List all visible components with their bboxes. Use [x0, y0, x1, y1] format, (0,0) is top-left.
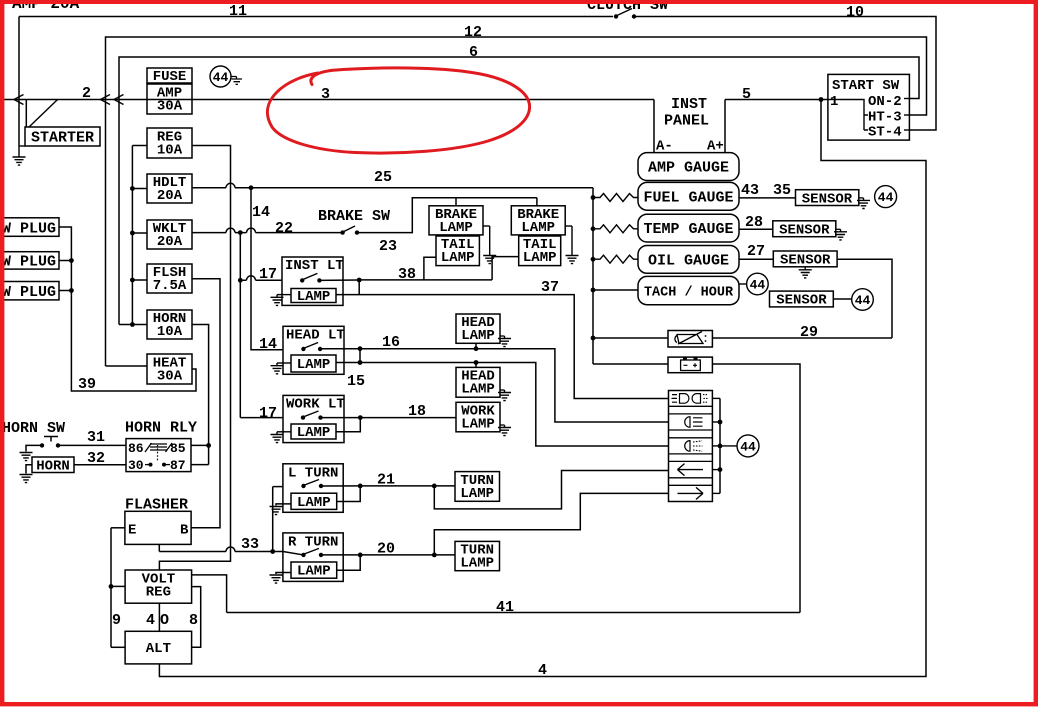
- lamp HEAD LAMP 2: [456, 367, 500, 397]
- WORK LT output node: [321, 417, 361, 419]
- wire stub to starter: [25, 100, 27, 128]
- svg-text:L TURN: L TURN: [288, 466, 338, 482]
- lamp HEAD LAMP 1: [456, 314, 500, 343]
- starter ground: [19, 145, 25, 147]
- lamp box inside HEAD LT: [291, 355, 336, 372]
- wire 28 temp sender: [739, 228, 773, 230]
- R TURN feed: [283, 552, 304, 555]
- left turn indicator path: [434, 471, 668, 509]
- svg-text:10A: 10A: [157, 143, 183, 159]
- wire 5: [725, 99, 828, 101]
- svg-text:HORN: HORN: [36, 459, 70, 475]
- INST LT ground: [277, 294, 291, 296]
- feed wire to HEAD LT (14): [251, 188, 283, 350]
- svg-text:LAMP: LAMP: [461, 417, 495, 433]
- tach sensor wire to 44: [833, 298, 851, 300]
- low beam icon: [685, 417, 703, 428]
- svg-text:LAMP: LAMP: [297, 357, 331, 373]
- switch R TURN: [283, 533, 343, 582]
- high beam icon: [672, 394, 689, 404]
- L TURN lamp tie: [337, 486, 361, 502]
- svg-text:22: 22: [275, 220, 293, 237]
- sensor OIL SENSOR: [773, 251, 837, 267]
- svg-text:R TURN: R TURN: [288, 535, 338, 551]
- svg-text:20A: 20A: [157, 188, 183, 204]
- ground at circle 44: [231, 76, 237, 78]
- svg-text:PANEL: PANEL: [664, 113, 709, 130]
- svg-text:LAMP: LAMP: [441, 250, 475, 266]
- junction node 1 of start switch: [819, 97, 824, 102]
- svg-text:WORK LT: WORK LT: [286, 397, 345, 413]
- svg-text:10A: 10A: [157, 324, 183, 340]
- gauge AMP GAUGE: [638, 153, 739, 181]
- svg-text:4: 4: [538, 662, 547, 679]
- ALT left pin: [111, 646, 125, 648]
- svg-text:16: 16: [382, 334, 400, 351]
- wire 43/35 fuel sender: [739, 197, 796, 199]
- relay coil symbol: [145, 443, 172, 452]
- resistor to TEMP gauge: [593, 225, 638, 233]
- lamp BRAKE LAMP 1: [429, 206, 483, 235]
- connector circle 44 fuel: [875, 186, 897, 208]
- wire to WORK LT (17): [240, 417, 283, 419]
- wire 22: [192, 228, 343, 232]
- gauge feed bus: [592, 188, 594, 364]
- svg-text:21: 21: [377, 472, 395, 489]
- svg-text:18: 18: [408, 403, 426, 420]
- vertical wire from 11 to starter ground: [18, 17, 20, 147]
- svg-text:LAMP: LAMP: [523, 250, 557, 266]
- svg-text:LAMP: LAMP: [461, 328, 495, 344]
- svg-text:SENSOR: SENSOR: [779, 222, 830, 238]
- INST LT output node: [319, 279, 359, 281]
- svg-text:30A: 30A: [157, 99, 183, 115]
- volt reg to ALT center pin: [158, 603, 160, 631]
- wire REG fuse to volt regulator: [159, 146, 230, 571]
- svg-text:2: 2: [82, 85, 91, 102]
- wire 12: [106, 37, 927, 366]
- svg-text:12: 12: [464, 24, 482, 41]
- glow plug 2: [0, 252, 59, 269]
- red hand-drawn oval annotation: [267, 68, 529, 153]
- R TURN output node: [321, 554, 360, 556]
- lamp box inside R TURN: [291, 562, 337, 578]
- wire 41: [227, 612, 800, 614]
- drop to brake lamp 2: [536, 198, 538, 206]
- fuse REG 10A: [147, 128, 192, 158]
- svg-text:87: 87: [170, 458, 186, 473]
- lamp TURN LAMP 1: [455, 472, 500, 502]
- head lamp 2 ground: [500, 389, 505, 391]
- lamp box inside WORK LT: [291, 424, 336, 439]
- switch L TURN: [283, 464, 343, 513]
- R TURN ground: [276, 573, 291, 575]
- sensor FUEL SENSOR: [796, 190, 859, 206]
- svg-text:START SW: START SW: [832, 78, 900, 94]
- regulator VOLT REG: [125, 570, 192, 603]
- svg-text:OIL GAUGE: OIL GAUGE: [648, 252, 729, 269]
- wire 2 / wire 3: [0, 99, 654, 101]
- wire 31: [58, 444, 126, 446]
- flasher E wire: [111, 527, 125, 529]
- riser to amp gauge A-: [653, 100, 655, 153]
- work light icon: [685, 441, 690, 452]
- svg-text:ALT: ALT: [146, 641, 171, 657]
- fuse AMP 30A: [147, 84, 192, 114]
- svg-text:INST: INST: [671, 96, 707, 113]
- svg-text:HORN RLY: HORN RLY: [125, 420, 197, 437]
- wire HORN fuse to horn relay: [192, 325, 209, 465]
- svg-text:44: 44: [878, 190, 894, 205]
- glow plug 1: [0, 218, 59, 237]
- wire 29: [837, 259, 892, 338]
- switch WORK LT: [283, 395, 344, 442]
- sensor TEMP SENSOR: [773, 221, 836, 237]
- fuse HDLT 20A: [147, 174, 192, 203]
- svg-text:3: 3: [321, 86, 330, 103]
- svg-text:85: 85: [170, 441, 186, 456]
- svg-text:38: 38: [398, 266, 416, 283]
- wire hop chevrons on wire 2: [14, 95, 24, 105]
- oil can icon: [675, 332, 703, 345]
- relay pin 85 wire: [191, 444, 209, 446]
- horn HORN: [32, 457, 74, 473]
- svg-text:LAMP: LAMP: [297, 425, 331, 441]
- fuse FLSH 7.5A: [147, 264, 192, 293]
- right arrow icon: [678, 487, 704, 499]
- L TURN feed: [273, 486, 283, 488]
- volt reg pin 8 to ALT: [192, 587, 201, 648]
- fuse label box: [147, 68, 192, 83]
- HEAD LT output node: [320, 348, 360, 350]
- svg-text:33: 33: [241, 536, 259, 553]
- WORK LT ground: [277, 431, 291, 433]
- svg-text:4: 4: [146, 612, 155, 629]
- svg-text:HORN SW: HORN SW: [2, 420, 65, 437]
- head lamp 1 pin: [475, 343, 477, 348]
- relay contact symbol: [157, 445, 159, 462]
- svg-text:LAMP: LAMP: [461, 382, 495, 398]
- L TURN ground: [276, 504, 291, 506]
- svg-text:14: 14: [259, 336, 277, 353]
- svg-text:LAMP: LAMP: [297, 495, 331, 511]
- wire 25: [192, 183, 593, 188]
- wire 12 feed to HEAT fuse: [106, 365, 148, 367]
- R TURN lamp tie: [337, 555, 361, 570]
- head lamp 1 ground: [500, 335, 505, 337]
- horn ground: [26, 465, 32, 474]
- svg-text:86: 86: [128, 441, 144, 456]
- svg-text:SENSOR: SENSOR: [776, 293, 827, 309]
- sensor TACH SENSOR: [770, 291, 834, 307]
- oil pressure tell-tale box: [668, 331, 712, 348]
- wire 41 riser to battery: [712, 364, 800, 613]
- svg-text:17: 17: [259, 405, 277, 422]
- wire 10: [634, 17, 936, 131]
- svg-text:INST LT: INST LT: [285, 258, 344, 274]
- svg-text:LAMP: LAMP: [521, 220, 555, 236]
- svg-text:41: 41: [496, 599, 514, 616]
- tie to lamp / wire 37 start: [358, 280, 360, 295]
- svg-text:5: 5: [742, 86, 751, 103]
- glow plug 3: [0, 282, 59, 300]
- switch INST LT: [282, 257, 343, 305]
- svg-text:BRAKE SW: BRAKE SW: [318, 208, 390, 225]
- svg-text:AMP GAUGE: AMP GAUGE: [648, 160, 729, 177]
- wire 32: [74, 464, 126, 466]
- work lamp ground: [500, 424, 505, 426]
- wire 21: [360, 485, 455, 487]
- indicator staple bus: [719, 398, 721, 493]
- wire 6 feed to HORN fuse: [119, 324, 147, 326]
- svg-text:FUSE: FUSE: [153, 69, 187, 85]
- wire from node 1 down and around to ALT (wire 4): [159, 100, 926, 677]
- volt reg pin to battery (wire 41 riser): [192, 575, 227, 613]
- svg-text:10: 10: [846, 4, 864, 21]
- fuse feed bus: [131, 146, 133, 325]
- svg-text:11: 11: [229, 3, 247, 20]
- battery tell-tale box: [668, 357, 712, 373]
- tach connector circle 44: [739, 283, 747, 285]
- lamp TAIL LAMP 2: [519, 236, 561, 266]
- wire 23: [357, 198, 537, 233]
- svg-text:32: 32: [87, 450, 105, 467]
- fuel sensor ground: [859, 197, 864, 199]
- svg-text:E: E: [128, 523, 136, 539]
- gauge OIL GAUGE: [638, 246, 739, 274]
- svg-text:25: 25: [374, 169, 392, 186]
- svg-text:LAMP: LAMP: [439, 220, 473, 236]
- resistor to FUEL gauge: [593, 194, 638, 202]
- connector circle 44 (top): [210, 66, 231, 87]
- svg-text:9: 9: [112, 612, 121, 629]
- wire 27 oil sender: [739, 258, 773, 260]
- svg-text:SENSOR: SENSOR: [780, 253, 831, 269]
- connector circle 44 indicators: [737, 435, 759, 457]
- svg-text:44: 44: [213, 70, 229, 85]
- head lamp 2 pin: [475, 363, 477, 368]
- svg-text:14: 14: [252, 204, 270, 221]
- svg-text:LAMP: LAMP: [460, 486, 494, 502]
- switch HEAD LT: [283, 326, 344, 374]
- glow plug bus: [59, 227, 196, 391]
- svg-text:29: 29: [800, 324, 818, 341]
- svg-text:LAMP: LAMP: [297, 564, 331, 580]
- svg-text:6: 6: [469, 44, 478, 61]
- svg-text:37: 37: [541, 279, 559, 296]
- svg-text:ON-2: ON-2: [868, 94, 902, 110]
- svg-text:28: 28: [745, 214, 763, 231]
- svg-text:8: 8: [189, 612, 198, 629]
- fuse HEAT 30A: [147, 354, 192, 384]
- svg-text:SENSOR: SENSOR: [802, 191, 853, 207]
- relay pin 87 wire: [191, 464, 209, 466]
- wire 15: [336, 363, 669, 447]
- horn switch ground: [26, 445, 42, 451]
- svg-text:44: 44: [855, 293, 871, 308]
- clutch switch contacts: [614, 14, 618, 18]
- riser to amp gauge A+: [724, 100, 726, 153]
- wire 16: [360, 349, 669, 422]
- temp sensor ground: [836, 228, 841, 230]
- wire 38: [359, 279, 492, 281]
- volt reg left pin wire: [111, 585, 125, 587]
- svg-text:W PLUG: W PLUG: [2, 284, 56, 301]
- svg-text:15: 15: [347, 373, 365, 390]
- svg-text:STARTER: STARTER: [31, 130, 94, 147]
- right turn indicator path: [434, 493, 668, 555]
- tie switch to lamp: [359, 349, 361, 363]
- start switch bracket: [840, 100, 868, 131]
- drop to brake lamp 1: [455, 198, 457, 206]
- resistor to OIL gauge: [593, 255, 638, 263]
- wire 6: [119, 57, 919, 325]
- lamp box inside L TURN: [291, 493, 337, 509]
- brake lamp 1 ground: [483, 225, 490, 227]
- feed wire to INST LT and WORK LT: [239, 233, 241, 418]
- svg-text:LAMP: LAMP: [460, 556, 494, 572]
- svg-text:20A: 20A: [157, 234, 183, 250]
- oil sensor ground: [799, 267, 812, 278]
- indicator lamp cluster box: [669, 391, 713, 502]
- gauge TEMP GAUGE: [638, 214, 739, 242]
- gauge TACH / HOUR: [638, 276, 739, 304]
- hop of INST feed over head-lt drop: [240, 276, 282, 281]
- svg-text:REG: REG: [146, 585, 171, 601]
- tie switch to lamp: [336, 418, 360, 432]
- wire 33: [158, 544, 160, 551]
- svg-text:ST-4: ST-4: [868, 125, 902, 141]
- svg-text:W PLUG: W PLUG: [2, 254, 56, 271]
- svg-text:TEMP GAUGE: TEMP GAUGE: [643, 221, 733, 238]
- L/R turn feed riser: [272, 487, 274, 552]
- svg-text:39: 39: [78, 376, 96, 393]
- svg-text:HT-3: HT-3: [868, 110, 902, 126]
- svg-text:43: 43: [741, 182, 759, 199]
- pin 1 wire: [828, 99, 840, 101]
- wire FLSH fuse to flasher B: [191, 279, 220, 528]
- wire 18: [360, 417, 456, 419]
- svg-text:FUEL GAUGE: FUEL GAUGE: [643, 189, 733, 206]
- wire to battery tell-tale: [593, 363, 668, 365]
- svg-text:30: 30: [128, 458, 144, 473]
- lamp WORK LAMP: [456, 402, 500, 432]
- fuse HORN 10A: [147, 310, 192, 339]
- svg-text:20: 20: [377, 541, 395, 558]
- left arrow icon: [678, 464, 704, 476]
- alternator ALT: [125, 631, 192, 664]
- battery icon: [681, 360, 701, 371]
- wire 20: [360, 554, 455, 556]
- svg-text:1: 1: [830, 94, 838, 110]
- tail lamp 1 feed: [424, 257, 436, 280]
- L TURN output node: [321, 485, 360, 487]
- starter box: [25, 127, 100, 146]
- svg-text:35: 35: [773, 182, 791, 199]
- lamp box inside INST LT: [291, 289, 336, 303]
- gauge FUEL GAUGE: [638, 182, 739, 210]
- svg-text:30A: 30A: [157, 369, 183, 385]
- wire to oil pressure tell-tale: [593, 337, 668, 339]
- svg-text:W PLUG: W PLUG: [2, 221, 56, 238]
- wire to TACH/HOUR: [593, 289, 638, 291]
- svg-text:31: 31: [87, 429, 105, 446]
- svg-text:HEAD LT: HEAD LT: [286, 328, 345, 344]
- fuse WKLT 20A: [147, 220, 192, 249]
- svg-text:44: 44: [740, 439, 756, 454]
- svg-text:23: 23: [379, 238, 397, 255]
- svg-text:B: B: [180, 523, 189, 539]
- wire 37: [336, 295, 669, 399]
- HEAD LT ground: [277, 362, 291, 364]
- svg-text:TACH / HOUR: TACH / HOUR: [644, 286, 734, 301]
- start switch right stubs: [904, 98, 909, 100]
- svg-text:27: 27: [747, 243, 765, 260]
- svg-text:7.5A: 7.5A: [153, 278, 187, 294]
- svg-text:O: O: [160, 612, 169, 629]
- brake lamp 2 ground: [565, 225, 572, 227]
- lamp TURN LAMP 2: [455, 541, 500, 570]
- tail lamp 2 feed: [492, 257, 519, 280]
- switch START SW: [828, 74, 910, 140]
- lamp BRAKE LAMP 2: [511, 206, 565, 235]
- wire 11: [19, 16, 613, 18]
- svg-text:LAMP: LAMP: [297, 289, 331, 305]
- diagonal wire to starter: [29, 100, 58, 128]
- svg-text:44: 44: [750, 278, 766, 293]
- wire to circle 44: [720, 445, 737, 447]
- lamp TAIL LAMP 1: [436, 236, 479, 266]
